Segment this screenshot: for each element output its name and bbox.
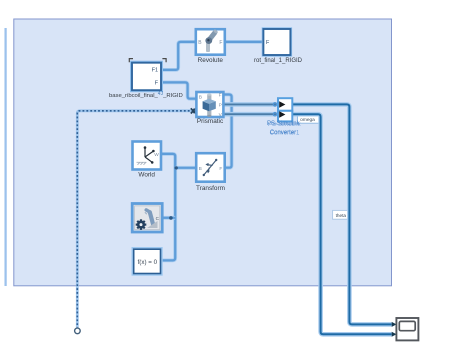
wire W4: World W trunk down to f(x)=0	[161, 154, 175, 261]
block Transform	[196, 153, 225, 182]
wire W4b: Mechanism Configuration C to trunk	[163, 216, 176, 220]
wire W2: Revolute F to rot_final_1_RIGID F	[225, 40, 264, 44]
svg-text:F: F	[219, 166, 222, 172]
wire W5: Transform F up to Prismatic F	[224, 95, 232, 168]
dashed unconnected line dashes	[77, 111, 193, 328]
svg-text:Revolute: Revolute	[198, 57, 224, 64]
revolute joint icon cylinder cap	[213, 29, 218, 34]
junction dot on Mechanism C wire	[169, 216, 173, 220]
wire W1: Revolute B to base_ribcoil F1	[161, 42, 196, 70]
transform icon down arrow	[208, 168, 209, 172]
wire W4a: trunk tee to Transform B	[175, 166, 196, 170]
mechanism icon gear	[136, 219, 147, 230]
PS line P: Prismatic P to converter 1 (halo)	[224, 102, 277, 107]
block Prismatic	[196, 92, 223, 118]
prismatic icon cube left face	[203, 101, 209, 111]
block f(x)=0 solver	[134, 249, 161, 273]
signal line theta: converter1 out to Scope input 1 (halo)	[291, 104, 392, 324]
prismatic icon cube top face	[203, 99, 216, 104]
selection bracket base block top-right	[162, 59, 166, 63]
transform icon diagonal	[204, 160, 216, 175]
svg-text:B: B	[199, 166, 202, 172]
revolute joint icon shaft	[206, 41, 210, 52]
signal label box omega	[298, 115, 322, 123]
PS line P core	[224, 103, 277, 105]
PS line V: Prismatic V to converter 2 (halo)	[224, 112, 277, 117]
block base_ribcoil_final_RIGID	[132, 63, 161, 90]
mechanism icon shadow wedge	[147, 221, 158, 228]
scope input arrow 1	[392, 322, 397, 327]
dashed line arrowhead at Prismatic C (unconnected X mark)	[191, 108, 196, 113]
mechanism icon arm	[150, 212, 154, 225]
svg-text:World: World	[138, 172, 155, 179]
block Scope	[396, 318, 418, 340]
svg-text:Transform: Transform	[196, 185, 225, 192]
signal line theta core	[291, 104, 392, 324]
svg-text:base_ribcoil_final_4J_RIGID: base_ribcoil_final_4J_RIGID	[109, 91, 183, 99]
PS port ring on V line	[273, 113, 276, 116]
junction dot at trunk/Transform tee	[175, 166, 178, 169]
wire W3: base_ribcoil F to Prismatic B	[161, 82, 196, 98]
revolute joint icon hub	[205, 37, 212, 44]
svg-text:Prismatic: Prismatic	[197, 118, 224, 125]
prismatic icon cube right face	[209, 101, 216, 111]
world icon axes	[144, 148, 146, 157]
svg-text:F1: F1	[152, 67, 158, 73]
prismatic icon bottom cylinder	[207, 111, 211, 116]
signal label box theta	[333, 210, 350, 219]
block Mechanism Configuration	[132, 204, 162, 233]
block PS-Simulink Converter (upper)	[278, 98, 292, 111]
signal line omega core	[291, 114, 392, 334]
prismatic icon top cylinder	[207, 95, 211, 101]
dashed unconnected line halo	[77, 111, 193, 328]
PS line V core	[224, 113, 277, 115]
svg-text:PS-Simulink: PS-Simulink	[268, 122, 302, 128]
block rot_final_1_RIGID	[263, 29, 290, 55]
svg-text:theta: theta	[336, 213, 347, 218]
revolute joint icon tilted cylinder	[207, 30, 217, 41]
converter input arrow glyph	[279, 101, 285, 107]
PS port ring on P line	[273, 103, 276, 106]
svg-text:Converter1: Converter1	[270, 131, 300, 137]
world icon ground hatch	[137, 162, 147, 165]
svg-text:F: F	[219, 40, 222, 46]
svg-text:P: P	[219, 103, 222, 109]
svg-text:omega: omega	[300, 118, 315, 123]
signal line omega: converter2 out to Scope input 2 (halo)	[291, 114, 392, 334]
svg-text:f(x) = 0: f(x) = 0	[138, 259, 158, 266]
selection area rectangle	[14, 19, 392, 286]
transform icon left arrow	[207, 164, 212, 167]
selection bracket base block top-left	[129, 59, 133, 63]
dashed line open circle terminator	[75, 328, 81, 334]
block PS-Simulink Converter1 (lower)	[278, 111, 292, 122]
svg-text:F: F	[219, 93, 222, 99]
block World	[133, 142, 162, 170]
converter1 input arrow glyph	[279, 111, 285, 117]
svg-text:rot_final_1_RIGID: rot_final_1_RIGID	[254, 58, 303, 64]
svg-text:W: W	[154, 152, 159, 158]
scope input arrow 2	[392, 332, 397, 337]
svg-text:B: B	[199, 95, 202, 101]
block Revolute	[196, 29, 225, 55]
wire (left edge vertical, partially off-screen)	[4, 28, 7, 286]
